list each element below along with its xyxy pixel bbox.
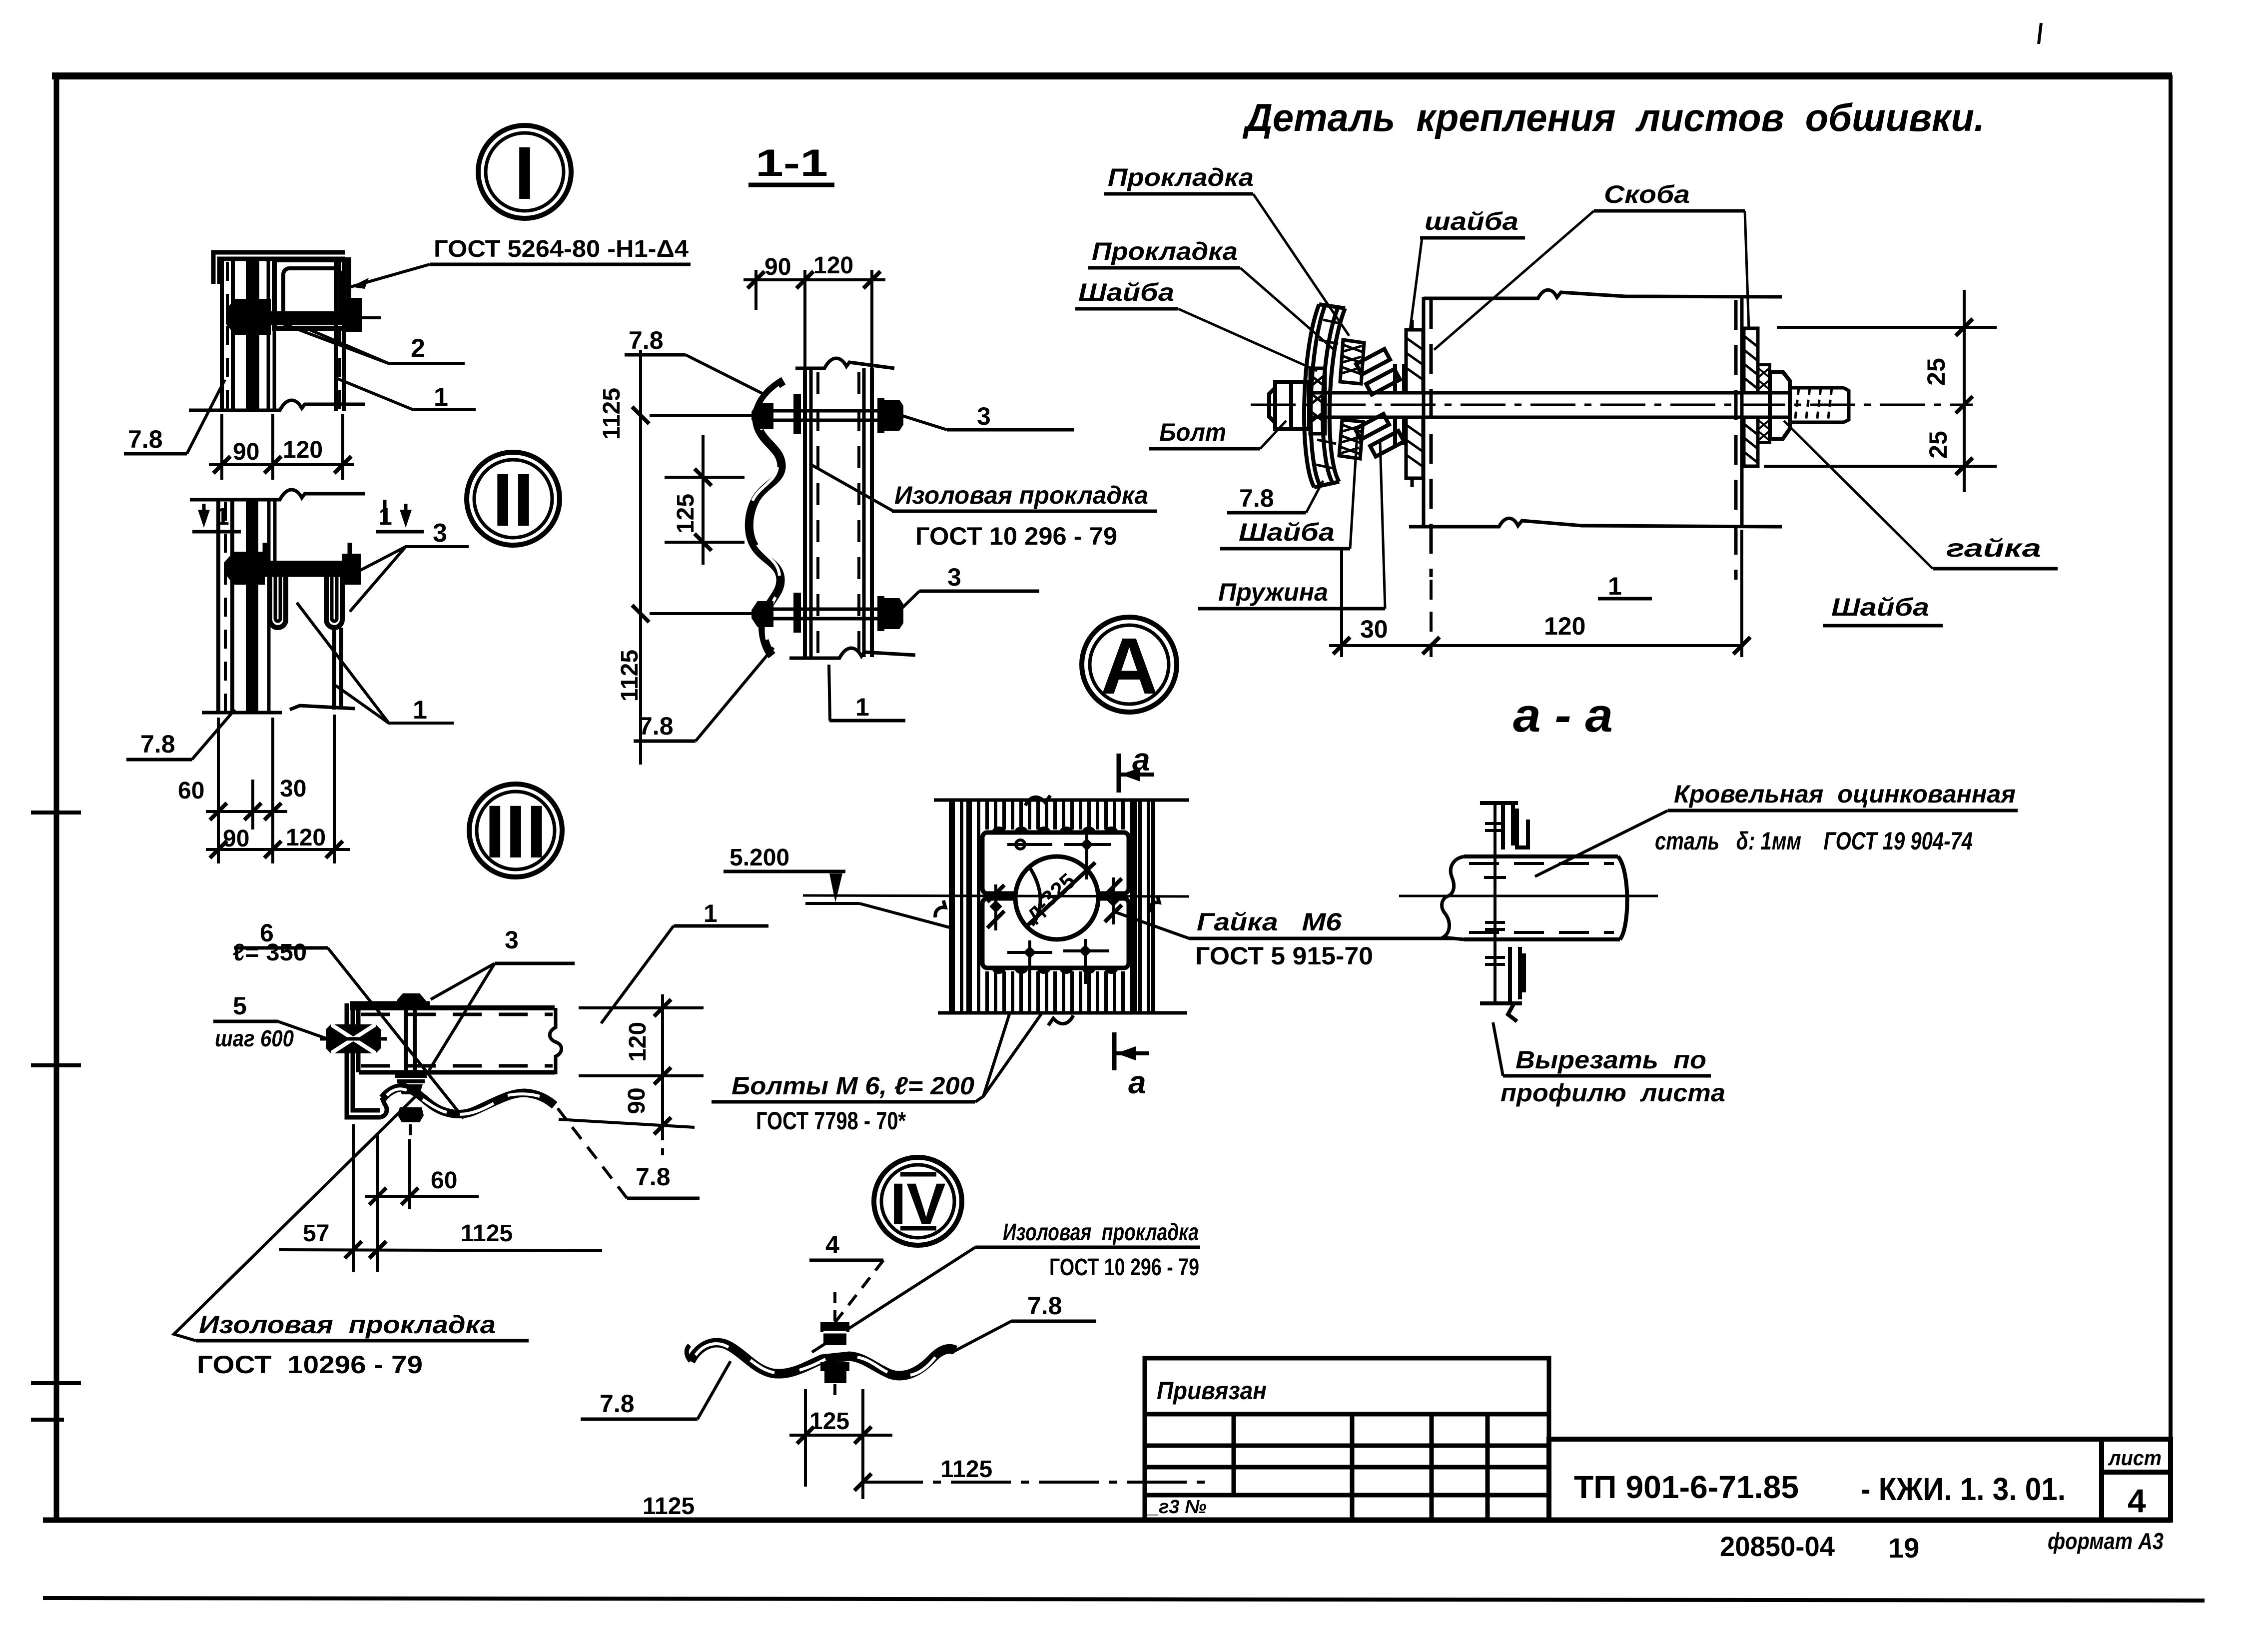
svg-text:а: а: [1128, 1064, 1146, 1100]
detail III vertical dim 120/90: [559, 994, 704, 1155]
detail III channel rail: [350, 1008, 562, 1074]
curved corrugated sheet through assembly: [1304, 304, 1345, 487]
center circle with diameter note: [1015, 856, 1098, 939]
svg-text:3: 3: [433, 519, 447, 548]
svg-text:шаг 600: шаг 600: [215, 1025, 294, 1051]
svg-text:120: 120: [625, 1022, 651, 1062]
svg-text:гайка: гайка: [1946, 534, 2041, 562]
title block outer box: [1549, 1439, 2171, 1520]
svg-text:ГОСТ 10 296 - 79: ГОСТ 10 296 - 79: [1049, 1254, 1199, 1281]
svg-text:ГОСТ 10296 - 79: ГОСТ 10296 - 79: [197, 1351, 423, 1379]
right bracket skoba (hatched strip): [1744, 328, 1758, 466]
svg-text:1: 1: [413, 696, 427, 725]
detail III lower nut under sheet: [398, 1107, 424, 1122]
svg-text:Скоба: Скоба: [1604, 180, 1690, 208]
bolt head: [1269, 382, 1309, 429]
detail I bolt tail line: [362, 316, 381, 319]
svg-text:1125: 1125: [617, 650, 643, 702]
bolt cross bottom-right: [1063, 939, 1109, 984]
1-1 top break line: [795, 358, 894, 368]
svg-text:1125: 1125: [461, 1220, 513, 1247]
wall bottom edge line: [1409, 518, 1782, 527]
detail III top bolt nut: [397, 993, 426, 1006]
panel bottom edge: [938, 1011, 1187, 1015]
section marker a top: [1117, 754, 1121, 793]
right washer (cross hatched): [1758, 365, 1770, 442]
svg-text:30: 30: [1360, 615, 1388, 643]
pipe body: [1442, 856, 1627, 939]
svg-text:Гайка М6: Гайка М6: [1197, 908, 1342, 936]
leader 1 detail I: [338, 379, 476, 410]
leader 3 detail II: [356, 547, 469, 573]
svg-text:7.8: 7.8: [629, 326, 664, 354]
dim 60 detail III: [365, 1195, 479, 1198]
washer at head (cross hatched): [1310, 368, 1325, 434]
svg-text:сталь δ: 1мм ГОСТ 19 904-: сталь δ: 1мм ГОСТ 19 904-74: [1655, 827, 1973, 855]
detail III washer and nut under channel: [395, 1073, 427, 1078]
bolt cross mid-left: [987, 884, 1004, 930]
bottom rule line below frame: [43, 1598, 2205, 1601]
svg-text:7.8: 7.8: [128, 425, 163, 453]
svg-text:60: 60: [178, 778, 204, 804]
assembly centerline: [1251, 404, 1973, 406]
detail II column chord lines: [218, 500, 232, 713]
detail II bolt shaft: [265, 561, 342, 574]
bolt cross bottom-left: [1007, 940, 1052, 985]
detail IV dims: [789, 1389, 892, 1499]
svg-text:7.8: 7.8: [1027, 1292, 1062, 1320]
svg-text:1: 1: [855, 693, 869, 721]
svg-text:профилю листа: профилю листа: [1500, 1079, 1725, 1107]
svg-text:Вырезать по: Вырезать по: [1515, 1046, 1706, 1074]
svg-text:Болты М 6, ℓ= 200: Болты М 6, ℓ= 200: [732, 1072, 974, 1100]
detail II bolt head: [224, 552, 265, 585]
detail II crossbar plate: [243, 543, 359, 575]
a-a centerline: [1399, 895, 1658, 897]
upper plate: [982, 832, 1129, 893]
svg-text:120: 120: [1544, 612, 1585, 640]
svg-text:формат А3: формат А3: [2048, 1528, 2164, 1554]
detail III circle label: [469, 784, 562, 877]
svg-text:7.8: 7.8: [600, 1390, 635, 1418]
break squiggles on panel: [1025, 796, 1050, 806]
svg-text:4: 4: [825, 1231, 839, 1259]
svg-text:7.8: 7.8: [636, 1163, 671, 1191]
svg-text:1125: 1125: [643, 1493, 695, 1520]
detail II dim line 60/30: [206, 810, 287, 813]
svg-text:Кровельная оцинкованная: Кровельная оцинкованная: [1674, 780, 2016, 808]
svg-text:1-1: 1-1: [755, 142, 828, 184]
svg-text:Деталь крепления листов обш: Деталь крепления листов обшивки.: [1242, 95, 1985, 139]
svg-text:Прокладка: Прокладка: [1092, 237, 1238, 265]
section mark 1 left: [202, 504, 206, 523]
1-1 bottom bolt: [764, 609, 879, 619]
1-1 column lines: [805, 368, 872, 657]
detail A circle label: [1082, 617, 1177, 712]
detail IV bolt: [820, 1322, 849, 1332]
svg-text:90: 90: [223, 826, 249, 852]
svg-text:а: а: [1132, 742, 1150, 778]
detail II top break line: [190, 490, 365, 500]
top bracket profile a-a: [1480, 803, 1528, 849]
gasket below bolt (hatched): [1339, 420, 1363, 459]
detail I bottom break line: [189, 400, 365, 410]
svg-text:а - а: а - а: [1513, 689, 1613, 742]
svg-text:7.8: 7.8: [639, 712, 674, 740]
svg-text:шайба: шайба: [1425, 207, 1518, 235]
detail II bottom break lines: [202, 711, 282, 715]
revision table box: [1145, 1358, 1549, 1520]
left bracket skoba (hatched strip): [1406, 320, 1423, 487]
detail II circle label: [467, 452, 560, 545]
leader to weld: [351, 264, 430, 287]
detail IV corrugated sheet wave: [691, 1343, 955, 1376]
small mark top right: [2039, 23, 2041, 44]
detail II nut: [342, 554, 361, 585]
detail I bolt shaft: [271, 311, 345, 325]
svg-text:Шайба: Шайба: [1078, 278, 1174, 306]
svg-text:1: 1: [434, 383, 448, 412]
svg-text:_г3 №: _г3 №: [1147, 1497, 1207, 1518]
svg-text:120: 120: [286, 825, 326, 851]
svg-text:Болт: Болт: [1159, 418, 1226, 446]
svg-text:3: 3: [505, 926, 519, 954]
svg-text:25: 25: [1924, 431, 1952, 459]
svg-text:120: 120: [813, 252, 853, 279]
detail IV circle label: [874, 1157, 962, 1245]
svg-text:5.200: 5.200: [730, 844, 789, 871]
1-1 corrugated sheet wavy section: [749, 381, 783, 656]
vertical bolt through pipe: [1494, 804, 1496, 1003]
svg-text:А: А: [1100, 621, 1158, 711]
svg-text:1: 1: [704, 899, 718, 927]
detail II inner thin pair: [269, 500, 275, 713]
detail III left bolt with washers: [320, 1024, 387, 1053]
svg-text:ТП 901-6-71.85: ТП 901-6-71.85: [1574, 1469, 1799, 1505]
detail I column left chord lines: [222, 259, 233, 411]
svg-text:Привязан: Привязан: [1157, 1377, 1267, 1405]
1-1 vertical dim 125 inner: [702, 435, 705, 565]
leaders from bolts label to detail A bolts: [975, 954, 1028, 1102]
scallops on lower plate bottom: [992, 968, 1118, 974]
svg-text:90: 90: [764, 254, 791, 280]
left wall lines: [1424, 297, 1431, 577]
detail I right flange lines: [336, 260, 344, 411]
leader from gasket label to sheet: [809, 464, 893, 511]
bolt cross top-right: [1064, 832, 1111, 879]
svg-text:90: 90: [233, 439, 259, 465]
leader 1 detail II: [297, 603, 454, 723]
svg-text:ГОСТ 5264-80 -Н1-Δ4: ГОСТ 5264-80 -Н1-Δ4: [434, 236, 689, 262]
section marker a bottom: [1112, 1032, 1117, 1070]
svg-text:ГОСТ 7798 - 70*: ГОСТ 7798 - 70*: [756, 1107, 906, 1135]
svg-text:20850-04: 20850-04: [1720, 1531, 1835, 1562]
detail II U-bolt left: [270, 575, 286, 628]
detail II dim line 90/120: [206, 848, 350, 851]
right nut: [1770, 372, 1790, 439]
detail I dim extension lines: [222, 414, 343, 480]
svg-text:90: 90: [624, 1087, 650, 1114]
svg-text:ГОСТ 10 296 - 79: ГОСТ 10 296 - 79: [915, 522, 1117, 550]
right wall lines: [1736, 298, 1742, 580]
detail I circle label: [478, 125, 571, 218]
scallops on upper plate top: [992, 826, 1118, 832]
svg-text:Шайба: Шайба: [1831, 593, 1929, 621]
svg-text:II: II: [492, 458, 534, 542]
svg-text:I: I: [514, 131, 535, 215]
lower plate: [982, 898, 1129, 968]
1-1 vertical dim 1125 outer: [639, 350, 642, 765]
dim 57 / 1125 detail III: [279, 1250, 602, 1251]
bolt shaft: [1309, 393, 1790, 417]
svg-text:ГОСТ 5 915-70: ГОСТ 5 915-70: [1195, 942, 1373, 970]
dim 30/120 bottom: [1329, 530, 1744, 657]
detail I column web dark band: [246, 259, 259, 411]
threaded bolt end: [1790, 388, 1849, 422]
detail I dim line 90/120: [209, 463, 354, 466]
dim 25/25 right: [1764, 290, 1997, 492]
detail I top cap angle: [213, 252, 345, 284]
detail II right chord lines below U: [334, 500, 385, 710]
detail III bolt stem: [406, 1008, 415, 1072]
svg-text:1: 1: [1608, 572, 1622, 600]
section mark 1 right: [404, 504, 408, 523]
svg-text:Шайба: Шайба: [1239, 518, 1335, 546]
gasket above bolt (hatched): [1340, 340, 1364, 384]
svg-text:5: 5: [233, 992, 247, 1020]
panel side boundary lines: [951, 800, 1153, 1013]
svg-text:19: 19: [1888, 1532, 1919, 1564]
svg-text:25: 25: [1922, 358, 1950, 386]
svg-text:120: 120: [283, 437, 323, 463]
svg-text:30: 30: [280, 776, 306, 802]
svg-text:125: 125: [673, 494, 699, 534]
svg-text:7.8: 7.8: [1239, 484, 1274, 512]
mid washer lines: [1395, 364, 1404, 445]
svg-text:III: III: [484, 790, 547, 873]
svg-text:- КЖИ. 1. 3. 01.: - КЖИ. 1. 3. 01.: [1861, 1471, 2066, 1507]
1-1 top bolt: [764, 411, 879, 420]
svg-text:4: 4: [2128, 1482, 2146, 1519]
svg-text:57: 57: [303, 1220, 329, 1247]
svg-text:7.8: 7.8: [140, 730, 175, 758]
svg-text:3: 3: [977, 402, 991, 430]
svg-text:Прокладка: Прокладка: [1108, 163, 1254, 191]
1-1 bottom break line: [789, 648, 915, 658]
detail II column web dark band: [246, 500, 258, 713]
detail I square tube profile: [274, 260, 349, 328]
leader from gasket label to bolt: [812, 1247, 975, 1352]
1-1 dim line 90/120: [744, 278, 885, 281]
detail III lower dim extension lines: [353, 1124, 410, 1272]
wall top edge line: [1424, 290, 1782, 298]
svg-text:2: 2: [411, 334, 425, 363]
detail I inner pair lines: [268, 259, 274, 411]
detail I bolt head: [226, 299, 271, 335]
spring washers (diagonal slats): [1355, 349, 1404, 456]
svg-text:125: 125: [809, 1408, 849, 1435]
svg-text:1125: 1125: [599, 388, 625, 440]
detail II U-bolt right: [326, 575, 342, 628]
left border fold ticks: [31, 813, 81, 1420]
detail I nut: [344, 298, 362, 332]
detail II dim extension lines: [218, 715, 334, 863]
bolt cross mid-right: [1105, 877, 1122, 924]
panel centerline: [803, 895, 1189, 896]
svg-text:60: 60: [431, 1167, 457, 1194]
svg-text:1125: 1125: [940, 1456, 992, 1483]
svg-text:лист: лист: [2108, 1446, 2162, 1470]
leader 2: [272, 320, 465, 363]
svg-text:Пружина: Пружина: [1218, 578, 1328, 606]
panel top edge: [934, 799, 1189, 802]
svg-text:ℓ= 350: ℓ= 350: [233, 939, 307, 966]
bottom bracket profile a-a: [1480, 947, 1524, 1021]
svg-text:Изоловая прокладка: Изоловая прокладка: [1003, 1219, 1199, 1246]
white backing plates: [981, 829, 1130, 895]
bolt cross top-left: [1007, 840, 1052, 849]
detail III L-bracket: [347, 1003, 430, 1117]
1-1 top dim extension lines: [756, 270, 872, 368]
detail III corrugated sheet wave: [383, 1087, 555, 1114]
leader from gasket label to bracket: [174, 1091, 421, 1341]
svg-text:Изоловая прокладка: Изоловая прокладка: [199, 1311, 496, 1339]
svg-text:3: 3: [947, 563, 961, 591]
svg-text:Изоловая прокладка: Изоловая прокладка: [894, 481, 1148, 509]
